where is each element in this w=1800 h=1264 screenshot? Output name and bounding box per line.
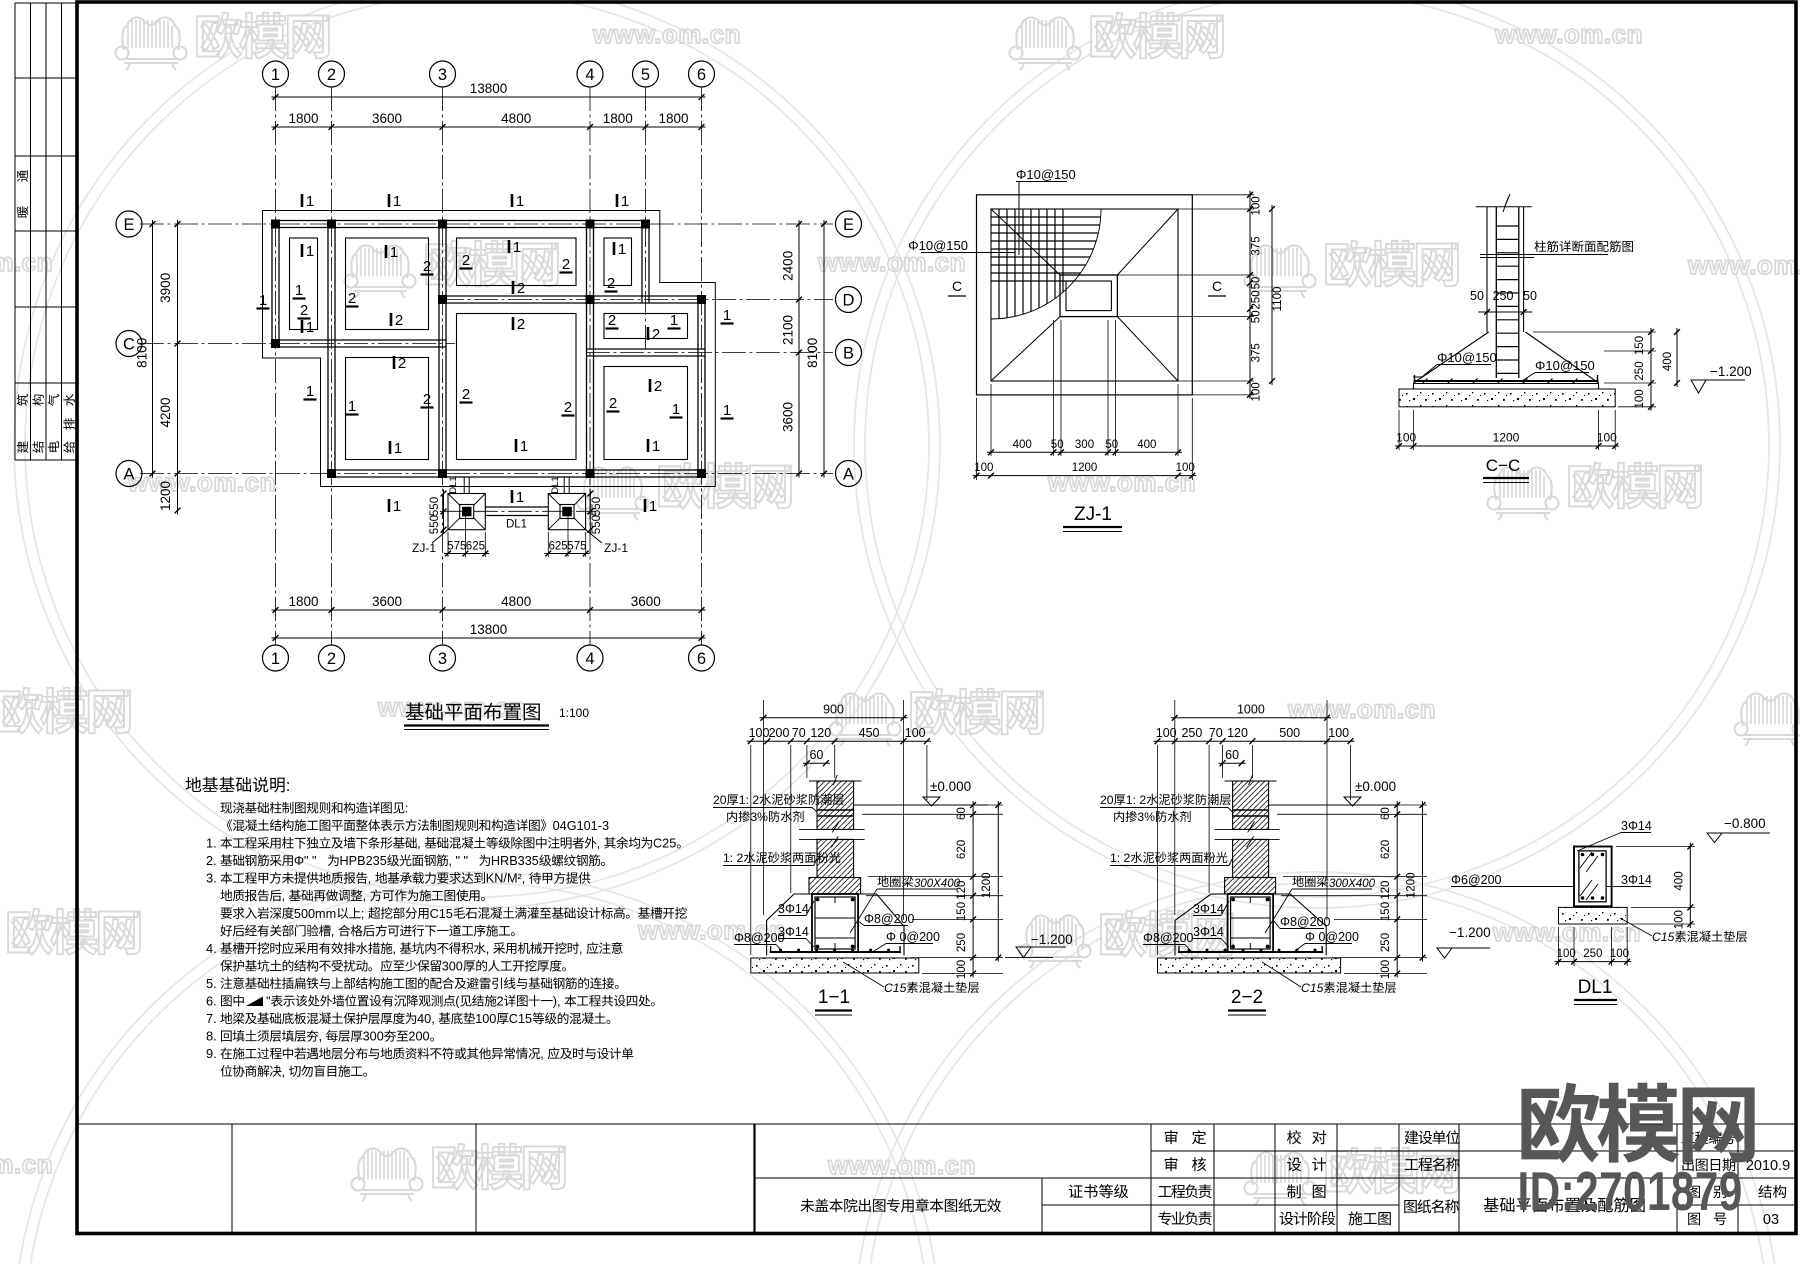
svg-text:8100: 8100	[135, 338, 150, 368]
plan footprint outline	[263, 211, 716, 487]
svg-text:1: 1	[295, 282, 303, 299]
section 1-1 label 防潮层	[713, 793, 844, 824]
plan top bay dims	[272, 111, 706, 130]
svg-text:3: 3	[438, 650, 447, 668]
svg-text:200: 200	[408, 1030, 429, 1044]
svg-text:C15: C15	[1301, 981, 1324, 995]
title block 证书等级	[1069, 1184, 1129, 1198]
svg-text:120: 120	[810, 726, 831, 740]
svg-text:50: 50	[1523, 289, 1537, 303]
svg-text:2100: 2100	[781, 315, 796, 345]
svg-text:,: ,	[393, 942, 397, 956]
room 4-6/D-B footing edge	[604, 314, 688, 339]
watermark row F	[0, 1144, 1458, 1205]
svg-text:2: 2	[423, 391, 431, 408]
svg-text:50: 50	[1105, 439, 1118, 451]
svg-text:2: 2	[517, 316, 525, 333]
svg-text:E: E	[843, 216, 854, 234]
C-C label phi10@150 left	[1413, 350, 1497, 377]
section 2-2 level mark -1.200	[1437, 925, 1491, 958]
section 1-1 ground beam 300x400	[812, 894, 858, 952]
svg-text:1: 2: 1: 2	[723, 851, 744, 865]
grid bubble A right	[836, 461, 862, 487]
room 2-3/C-A labels	[346, 355, 434, 457]
svg-text:www.om.cn: www.om.cn	[127, 467, 276, 497]
ZJ-1 rebar grid quarter	[991, 209, 1101, 319]
section 1-1 label 粉光	[723, 851, 840, 866]
svg-text:4: 4	[585, 650, 594, 668]
svg-text::: :	[405, 802, 409, 816]
svg-text:70: 70	[792, 726, 806, 740]
svg-text:625: 625	[549, 541, 568, 553]
svg-text:2: 2	[462, 252, 470, 269]
svg-text:,: ,	[319, 1030, 323, 1044]
svg-text:Φ 0@200: Φ 0@200	[886, 930, 940, 944]
svg-text:ZJ-1: ZJ-1	[1074, 504, 1112, 525]
svg-text:900: 900	[823, 703, 844, 717]
section 2-2 level mark 0.000	[1269, 779, 1400, 806]
svg-text:2: 2	[564, 399, 572, 416]
svg-text:04G101-3: 04G101-3	[553, 819, 609, 833]
svg-text:1: 1	[306, 193, 314, 210]
DL1 pad vertical dims left	[429, 490, 446, 535]
C-C dims 50 250 50	[1470, 289, 1537, 320]
section 2-2 ground beam 300x400	[1228, 894, 1274, 952]
svg-text:1: 1	[516, 193, 524, 210]
DL1 label C15 bedding	[1620, 918, 1747, 944]
svg-text:www.om.cn: www.om.cn	[592, 19, 741, 49]
svg-text:2: 2	[654, 378, 662, 395]
section 1-1 level mark -1.200	[1005, 932, 1073, 958]
svg-text:200: 200	[769, 726, 790, 740]
svg-text:620: 620	[1380, 840, 1392, 859]
svg-text:400: 400	[1674, 871, 1686, 890]
svg-text:2: 2	[348, 290, 356, 307]
svg-text:3Φ14: 3Φ14	[1193, 925, 1224, 939]
svg-text:DL1: DL1	[506, 519, 527, 531]
svg-text:1: 1	[390, 244, 398, 261]
C-C label 柱筋详断面配筋图	[1480, 240, 1633, 257]
ZJ-1 leader right	[586, 530, 629, 555]
ZJ-1 section letter C left	[948, 278, 966, 296]
svg-text:575: 575	[567, 541, 586, 553]
DL1 label 3phi14 top	[1577, 819, 1652, 851]
svg-text:2.: 2.	[206, 853, 217, 868]
column 7	[438, 295, 447, 304]
strip footing wall axis3	[439, 221, 446, 478]
wall section flag I1 top x512	[512, 193, 524, 210]
svg-text:,: ,	[282, 1065, 286, 1079]
svg-text:1: 1	[621, 193, 629, 210]
svg-text:20: 20	[1100, 793, 1114, 807]
C-C bottom rebar mesh	[1414, 375, 1599, 384]
svg-text:60: 60	[956, 807, 968, 820]
column 6	[271, 339, 280, 348]
section 2-2 label phi8@200 left	[1143, 931, 1194, 951]
svg-text:375: 375	[1251, 236, 1263, 255]
svg-text:3Φ14: 3Φ14	[778, 902, 809, 916]
room 4-5/E-D labels	[605, 241, 627, 292]
watermark arc circle lower-left	[14, 872, 940, 1264]
svg-text:,: ,	[282, 889, 286, 903]
svg-text:2: 2	[300, 302, 308, 319]
svg-text:ZJ-1: ZJ-1	[604, 541, 628, 555]
svg-text:9.: 9.	[206, 1046, 217, 1061]
title block 建设单位 工程名称 图纸名称	[1404, 1130, 1460, 1213]
svg-text:250: 250	[1251, 290, 1263, 309]
svg-text:HPB235: HPB235	[340, 854, 387, 868]
column 11	[438, 469, 447, 478]
svg-text:1: 1	[649, 498, 657, 515]
watermark row E	[0, 909, 1641, 968]
room 3-4/E-D footing edge	[457, 238, 577, 286]
svg-text:−0.800: −0.800	[1724, 816, 1766, 831]
binding strip labels	[17, 170, 75, 453]
svg-text:Φ6@200: Φ6@200	[1451, 873, 1502, 887]
svg-text:4200: 4200	[158, 397, 173, 427]
wall section flag 1 right outside lower	[721, 402, 734, 419]
svg-text:13800: 13800	[470, 81, 508, 96]
svg-text:1: 1	[652, 438, 660, 455]
title block labels col2	[1280, 1130, 1336, 1225]
svg-text:),: ),	[553, 995, 561, 1009]
svg-text:C: C	[952, 278, 962, 294]
svg-text:100: 100	[1597, 431, 1617, 445]
grid bubble B right	[836, 340, 862, 366]
grid bubble 5 top	[633, 61, 659, 87]
svg-text:C−C: C−C	[1486, 456, 1520, 475]
section 2-2 damp proof course	[1233, 810, 1269, 816]
svg-text:1: 1	[516, 489, 524, 506]
svg-text:B: B	[843, 344, 854, 362]
svg-text:4.: 4.	[206, 941, 217, 956]
svg-text:60: 60	[1380, 807, 1392, 820]
ZJ-1 title	[1063, 504, 1122, 532]
svg-text:Φ10@150: Φ10@150	[908, 238, 968, 253]
ZJ-1 pad edge	[991, 209, 1178, 381]
title block right column values	[1746, 1158, 1790, 1228]
section 1-1 bedding layer C15	[751, 958, 919, 973]
svg-text:120: 120	[956, 881, 968, 900]
svg-text:Φ10@150: Φ10@150	[1437, 350, 1497, 365]
svg-text:www.om.cn: www.om.cn	[1494, 19, 1643, 49]
section 1-1 label 3phi14 top	[778, 901, 814, 916]
wall section flag I1 top x302	[302, 193, 314, 210]
svg-text:3Φ14: 3Φ14	[1193, 902, 1224, 916]
svg-text:1: 2: 1: 2	[739, 793, 760, 807]
svg-text:KN/M²,: KN/M²,	[486, 872, 525, 886]
svg-text:1100: 1100	[1272, 287, 1284, 312]
plan bottom overall dim 13800	[272, 622, 706, 641]
svg-text:www.om.cn: www.om.cn	[1287, 694, 1436, 724]
wall section flag I1 top x617	[617, 193, 629, 210]
svg-text:E: E	[123, 216, 134, 234]
svg-text:450: 450	[859, 726, 880, 740]
strip footing wall D	[439, 296, 705, 303]
room 4-6/D-B labels	[606, 312, 681, 343]
svg-text:100: 100	[749, 726, 770, 740]
column 4	[586, 220, 595, 229]
svg-text:±0.000: ±0.000	[1355, 779, 1396, 794]
room 3-4/E-D labels	[460, 239, 573, 297]
grid bubble 6 bottom	[689, 645, 715, 671]
section 2-2 brick wall hatched	[1225, 781, 1276, 894]
svg-text:1: 1	[393, 193, 401, 210]
svg-text:1: 1	[259, 292, 267, 309]
plan top overall dim 13800	[272, 81, 706, 100]
watermark arc circle upper-right	[854, 0, 1780, 908]
svg-text:300: 300	[363, 1030, 384, 1044]
strip footing wall B	[587, 349, 706, 356]
svg-text:HRB335: HRB335	[491, 854, 539, 868]
svg-text:4800: 4800	[501, 111, 531, 126]
strip footing wall axis1	[272, 221, 279, 348]
svg-text:1: 1	[672, 401, 680, 418]
svg-text:300: 300	[1075, 439, 1094, 451]
column 5	[641, 220, 650, 229]
DL1 tie beams from wall A	[464, 477, 569, 494]
svg-text:50: 50	[1470, 289, 1484, 303]
svg-text:2: 2	[652, 326, 660, 343]
section 2-2 break lines	[1215, 821, 1280, 847]
section 1-1 right dims	[860, 801, 1003, 979]
plan right overall dim 8100	[805, 220, 827, 478]
svg-text:1:100: 1:100	[559, 706, 589, 720]
wall section flag I1 bottom x645	[645, 498, 657, 515]
svg-text:550: 550	[591, 497, 603, 516]
ZJ-1 label phi10@150 left	[908, 238, 1015, 253]
svg-text:100: 100	[1380, 960, 1392, 979]
svg-text:1: 1	[348, 398, 356, 415]
title block right column labels	[1682, 1131, 1735, 1225]
svg-text:,: ,	[363, 889, 367, 903]
C-C right dims	[1533, 328, 1656, 411]
title block 基础平面布置及配筋图	[1484, 1197, 1645, 1212]
column 9	[697, 295, 706, 304]
svg-text:1200: 1200	[1072, 462, 1098, 474]
watermark row A	[116, 13, 1644, 70]
section 1-1 brick wall hatched	[809, 781, 861, 894]
room 3-4/D-A labels	[460, 316, 575, 455]
svg-text:Φ 0@200: Φ 0@200	[1305, 930, 1359, 944]
watermark row B	[0, 241, 1800, 298]
grid bubble A left	[116, 461, 142, 487]
svg-text:100: 100	[475, 1012, 496, 1026]
svg-text:300: 300	[442, 960, 463, 974]
svg-text:www.om.cn: www.om.cn	[377, 692, 526, 722]
ZJ-1 bottom dims inner	[987, 320, 1182, 456]
section 2-2 label 粉光	[1110, 851, 1233, 866]
column 3	[438, 220, 447, 229]
grid bubble 2 bottom	[319, 645, 345, 671]
column 1	[271, 220, 280, 229]
svg-text:2: 2	[497, 995, 504, 1009]
column 13	[697, 469, 706, 478]
svg-text:5.: 5.	[206, 976, 217, 991]
section 1-1 bottom rebar mesh	[770, 946, 901, 952]
svg-text:2: 2	[517, 280, 525, 297]
svg-text:1.: 1.	[206, 836, 217, 851]
svg-text:2−2: 2−2	[1231, 987, 1263, 1008]
DL1 level mark -0.800	[1707, 816, 1770, 843]
svg-text:Φ10@150: Φ10@150	[1535, 358, 1595, 373]
svg-text:2: 2	[607, 275, 615, 292]
svg-text:8.: 8.	[206, 1029, 217, 1044]
svg-text:DL1: DL1	[448, 476, 459, 493]
title block 未盖本院出图专用章本图纸无效	[801, 1198, 1001, 1212]
svg-text:50: 50	[1051, 439, 1064, 451]
section 1-1 top dims	[747, 700, 931, 955]
room 4-6/B-A footing edge	[604, 367, 688, 460]
section 2-2 wall top line	[1225, 775, 1277, 785]
svg-text:3600: 3600	[372, 594, 402, 609]
svg-text:2010.9: 2010.9	[1746, 1158, 1790, 1174]
svg-text:300X400: 300X400	[914, 878, 961, 890]
svg-text:1: 1	[618, 241, 626, 258]
grid bubble 1 bottom	[263, 645, 289, 671]
svg-text:1: 1	[306, 243, 314, 260]
svg-text:400: 400	[1662, 352, 1674, 371]
svg-text:Φ8@200: Φ8@200	[1143, 931, 1194, 945]
svg-text:1: 1	[306, 319, 314, 336]
svg-text:1: 1	[394, 440, 402, 457]
svg-text:250: 250	[1493, 289, 1514, 303]
svg-text:1: 2: 1: 2	[1110, 851, 1131, 865]
svg-text:C15: C15	[509, 1012, 532, 1026]
svg-text:620: 620	[956, 840, 968, 859]
svg-text:3.: 3.	[206, 871, 217, 886]
svg-text:1800: 1800	[603, 111, 633, 126]
C-C title	[1483, 456, 1529, 483]
svg-text:100: 100	[905, 726, 926, 740]
room 2-3/C-A footing edge	[346, 358, 429, 460]
ZJ-1 right overall dim 1100	[1269, 205, 1284, 385]
svg-text:4800: 4800	[501, 594, 531, 609]
watermark 欧模网 dark	[1521, 1083, 1754, 1164]
title block 施工图	[1348, 1211, 1390, 1225]
watermark arc circle lower-right	[854, 872, 1780, 1264]
C-C bedding layer	[1399, 389, 1615, 407]
svg-text:,: ,	[331, 924, 335, 938]
svg-text:,: ,	[540, 1047, 544, 1061]
svg-text:,: ,	[597, 837, 601, 851]
svg-text:70: 70	[1209, 726, 1223, 740]
svg-text:100: 100	[1251, 382, 1263, 401]
pad footing ZJ-1 left (plan)	[448, 494, 485, 530]
svg-text:4: 4	[585, 66, 594, 84]
svg-text:C: C	[123, 335, 135, 353]
svg-text:6: 6	[697, 66, 706, 84]
svg-text:13800: 13800	[470, 622, 508, 637]
svg-text:1800: 1800	[658, 111, 688, 126]
svg-text:5: 5	[641, 66, 650, 84]
svg-text:500: 500	[1279, 726, 1300, 740]
svg-text:1−1: 1−1	[818, 987, 850, 1008]
svg-text:100: 100	[1610, 948, 1629, 960]
column 12	[586, 469, 595, 478]
column 2	[327, 220, 336, 229]
svg-text:www.om.cn: www.om.cn	[1687, 250, 1800, 280]
svg-text::: :	[286, 776, 291, 795]
ZJ-1 section letter C right	[1208, 278, 1226, 296]
plan grid axis lines	[140, 87, 833, 645]
svg-text:100: 100	[1328, 726, 1349, 740]
svg-text:7.: 7.	[206, 1011, 217, 1026]
strip footing wall axis2	[328, 221, 335, 478]
svg-text:60: 60	[1225, 748, 1239, 762]
section 2-2 top dims	[1154, 700, 1355, 955]
DL1 bottom dims	[1555, 927, 1632, 966]
title block grid	[79, 1124, 1794, 1232]
svg-text:1800: 1800	[288, 111, 318, 126]
svg-text:6: 6	[697, 650, 706, 668]
svg-text:2: 2	[395, 312, 403, 329]
DL1 pad dims right	[544, 510, 589, 557]
svg-text:1: 1	[271, 650, 280, 668]
ZJ-1 label phi10@150 top	[1016, 167, 1076, 255]
plan title 基础平面布置图	[404, 703, 589, 730]
grid bubble 4 bottom	[577, 645, 603, 671]
svg-text:400: 400	[1137, 439, 1156, 451]
wall section flag I1 bottom x389	[389, 498, 401, 515]
svg-text:550: 550	[429, 497, 441, 516]
svg-text:;: ;	[361, 907, 365, 921]
svg-text:1: 1	[520, 438, 528, 455]
DL1 pad dims left	[444, 510, 489, 557]
svg-text:Φ10@150: Φ10@150	[1016, 167, 1076, 182]
svg-text:,: ,	[417, 837, 421, 851]
ZJ-1 column box	[1060, 275, 1117, 317]
svg-text:550: 550	[429, 515, 441, 534]
svg-text:20: 20	[713, 793, 727, 807]
grid bubble 1 top	[263, 61, 289, 87]
svg-text:1: 1	[306, 383, 314, 400]
ZJ-1 leader left	[412, 530, 448, 555]
svg-text:100: 100	[974, 462, 993, 474]
section flag 1 below A center	[512, 489, 524, 506]
strip footing wall axis5	[642, 221, 649, 304]
svg-text:2: 2	[327, 650, 336, 668]
svg-text:575: 575	[447, 541, 466, 553]
svg-text:C: C	[1212, 278, 1222, 294]
section 2-2 bottom rebar mesh	[1178, 946, 1323, 952]
svg-text:50: 50	[1251, 277, 1263, 290]
C-C footing trapezoid	[1414, 332, 1599, 389]
svg-text:Φ8@200: Φ8@200	[1280, 915, 1331, 929]
svg-text:1800: 1800	[288, 594, 318, 609]
ZJ-1 bottom dims outer	[973, 398, 1197, 480]
svg-text:1: 1	[670, 312, 678, 329]
section 1-1 footing outline	[767, 894, 904, 956]
svg-text:150: 150	[1380, 902, 1392, 921]
DL1 label 3phi14 right	[1606, 873, 1652, 887]
section 2-2 label 防潮层	[1100, 793, 1233, 824]
svg-text:, " ": , " "	[448, 854, 468, 868]
DL1 bedding	[1559, 907, 1628, 924]
svg-text:2: 2	[398, 355, 406, 372]
DL1 beam box	[1574, 847, 1612, 907]
svg-text:−1.200: −1.200	[1710, 364, 1752, 379]
room 1-2/E-C labels	[293, 243, 315, 336]
section 2-2 label C15 bedding	[1262, 962, 1396, 995]
title block labels col1	[1158, 1130, 1211, 1225]
wall section flag 1 left below C	[304, 383, 317, 400]
grid bubble 4 top	[577, 61, 603, 87]
svg-text:150: 150	[1634, 336, 1646, 355]
wall section flag 1 left outside	[257, 292, 270, 309]
svg-text:2: 2	[462, 386, 470, 403]
svg-text:1: 1	[723, 307, 731, 324]
